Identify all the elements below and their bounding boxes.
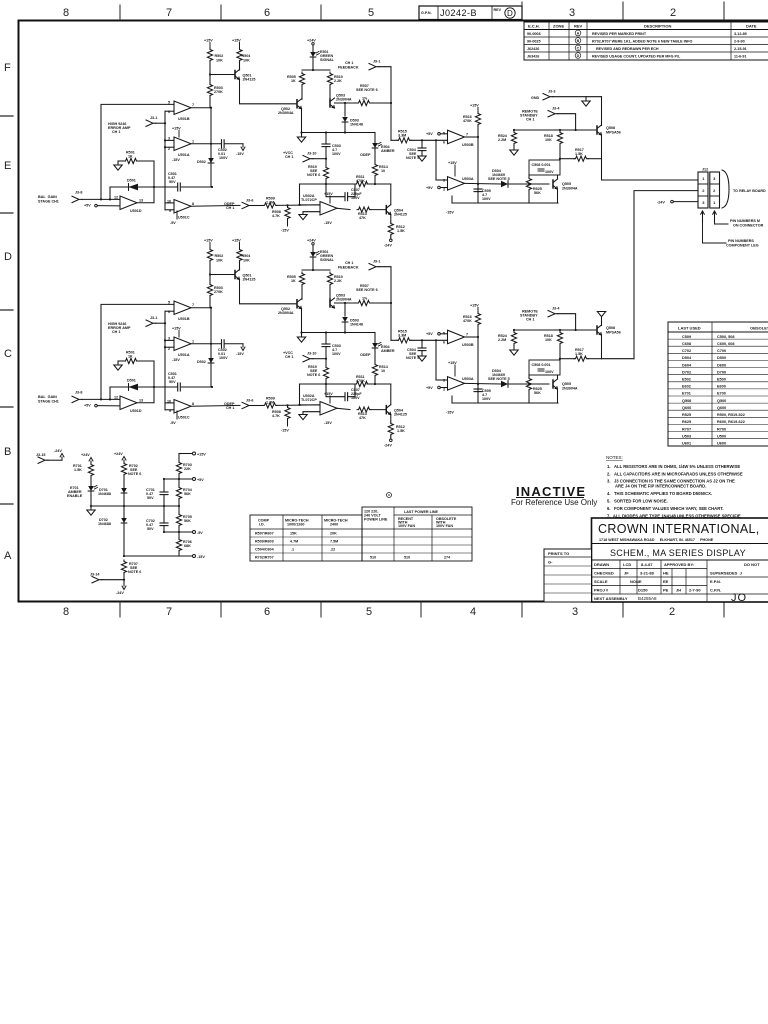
svg-text:6: 6 bbox=[264, 7, 270, 19]
wire channel2 R617 line to x634 bbox=[602, 358, 635, 360]
svg-text:-24V: -24V bbox=[657, 201, 665, 205]
svg-text:HE: HE bbox=[663, 571, 669, 576]
svg-text:R707: R707 bbox=[682, 427, 691, 431]
svg-text:2: 2 bbox=[702, 188, 705, 193]
svg-text:R600, R619-622: R600, R619-622 bbox=[717, 420, 745, 424]
channel 2 instance bbox=[38, 239, 621, 448]
svg-text:3: 3 bbox=[569, 7, 575, 19]
svg-text:NEXT ASSEMBLY: NEXT ASSEMBLY bbox=[594, 596, 628, 601]
channel 1 instance bbox=[38, 39, 621, 248]
svg-text:R700: R700 bbox=[717, 427, 726, 431]
svg-text:20K: 20K bbox=[330, 532, 337, 536]
wire Q508 emitter to J12 pin1 bbox=[602, 159, 699, 180]
svg-text:274: 274 bbox=[444, 556, 451, 560]
svg-text:D: D bbox=[4, 251, 12, 263]
svg-text:Q500: Q500 bbox=[717, 399, 726, 403]
svg-text:U601: U601 bbox=[682, 442, 691, 446]
svg-text:90-0025: 90-0025 bbox=[527, 40, 541, 44]
revision table bbox=[524, 22, 768, 60]
svg-text:2. ALL CAPACITORS ARE IN MIC: 2. ALL CAPACITORS ARE IN MICROFARADS UNL… bbox=[607, 472, 743, 477]
svg-text:B: B bbox=[577, 39, 580, 43]
svg-text:ZONE: ZONE bbox=[553, 24, 564, 29]
svg-text:4. THIS SCHEMATIC APPLIES TO: 4. THIS SCHEMATIC APPLIES TO BOARD D5050… bbox=[607, 491, 712, 496]
svg-text:D600: D600 bbox=[717, 363, 726, 367]
svg-text:D500: D500 bbox=[717, 356, 726, 360]
svg-text:7: 7 bbox=[166, 606, 172, 618]
svg-text:R500, R519-522: R500, R519-522 bbox=[717, 413, 745, 417]
svg-text:E.P.N.: E.P.N. bbox=[710, 579, 721, 584]
svg-text:C509: C509 bbox=[682, 335, 691, 339]
svg-text:56K: 56K bbox=[184, 519, 191, 523]
svg-text:E500: E500 bbox=[717, 378, 726, 382]
svg-text:LAST POWER LINE: LAST POWER LINE bbox=[404, 510, 439, 514]
svg-text:8: 8 bbox=[63, 7, 69, 19]
svg-text:3: 3 bbox=[572, 606, 578, 618]
svg-text:APPROVED BY:: APPROVED BY: bbox=[664, 562, 694, 567]
svg-text:J12: J12 bbox=[702, 168, 708, 172]
svg-text:+15V: +15V bbox=[197, 453, 206, 457]
svg-text:D604: D604 bbox=[682, 363, 692, 367]
svg-text:-15V: -15V bbox=[197, 555, 205, 559]
svg-text:ARE J4 ON THE FIP INTERCONNECT: ARE J4 ON THE FIP INTERCONNECT BOARD. bbox=[615, 484, 706, 489]
svg-text:1N4688: 1N4688 bbox=[98, 522, 111, 526]
svg-text:6: 6 bbox=[264, 606, 270, 618]
svg-text:E700: E700 bbox=[717, 392, 726, 396]
last used / obsolete table bbox=[668, 322, 768, 446]
svg-text:E602: E602 bbox=[682, 385, 691, 389]
title block bbox=[592, 518, 768, 604]
svg-text:R702,R707 WERE 1K1, ADDED NOTE: R702,R707 WERE 1K1, ADDED NOTE 6 NEW TAB… bbox=[592, 40, 693, 44]
svg-text:1.5K: 1.5K bbox=[74, 468, 82, 472]
svg-text:R525: R525 bbox=[682, 413, 691, 417]
svg-text:2: 2 bbox=[669, 606, 675, 618]
svg-text:E600: E600 bbox=[717, 385, 726, 389]
wire J12 pin2 from channel 2 bbox=[634, 191, 698, 359]
CH2 extras bbox=[597, 312, 605, 326]
resistor R704 56K bbox=[176, 486, 181, 500]
drawing border frame bbox=[19, 21, 768, 602]
horizontal bus bbox=[91, 505, 179, 507]
svg-text:LCD: LCD bbox=[623, 562, 631, 567]
svg-text:15K: 15K bbox=[290, 532, 297, 536]
svg-text:PE: PE bbox=[663, 588, 669, 593]
svg-text:G-: G- bbox=[548, 560, 553, 565]
svg-text:7. ALL DIODES ARE TYPE 1N4148: 7. ALL DIODES ARE TYPE 1N4148 UNLESS OTH… bbox=[607, 514, 741, 519]
svg-text:8-4-87: 8-4-87 bbox=[641, 562, 653, 567]
svg-text:100V FAN: 100V FAN bbox=[398, 524, 415, 528]
zone tick marks bottom edge bbox=[120, 602, 724, 617]
svg-text:C.P.N.: C.P.N. bbox=[710, 588, 721, 593]
svg-text:C504/C604: C504/C604 bbox=[255, 548, 275, 552]
svg-text:3-21-88: 3-21-88 bbox=[640, 571, 655, 576]
svg-text:REVISED AND REDRAWN PER ECH: REVISED AND REDRAWN PER ECH bbox=[596, 47, 659, 51]
svg-text:510: 510 bbox=[370, 556, 376, 560]
zone tick marks top edge bbox=[120, 2, 724, 20]
svg-text:INACTIVE: INACTIVE bbox=[516, 484, 586, 499]
svg-text:D700: D700 bbox=[717, 370, 726, 374]
svg-text:+24V: +24V bbox=[114, 452, 123, 456]
svg-text:J3-14: J3-14 bbox=[90, 573, 100, 577]
svg-text:1000/1260: 1000/1260 bbox=[287, 523, 304, 527]
svg-text:5: 5 bbox=[368, 7, 374, 19]
svg-text:7: 7 bbox=[166, 7, 172, 19]
svg-text:C600, 608: C600, 608 bbox=[717, 342, 735, 346]
svg-text:GND: GND bbox=[531, 96, 540, 100]
svg-text:5. SORTED FOR LOW NOISE.: 5. SORTED FOR LOW NOISE. bbox=[607, 499, 668, 504]
svg-text:+5V: +5V bbox=[197, 478, 204, 482]
svg-text:2-9-90: 2-9-90 bbox=[734, 40, 745, 44]
svg-text:E701: E701 bbox=[682, 392, 691, 396]
svg-text:A: A bbox=[4, 550, 12, 562]
-5V output tap bbox=[164, 531, 192, 533]
svg-text:8: 8 bbox=[63, 606, 69, 618]
+24V tap bbox=[61, 457, 63, 460]
diode D701 1N4688 bbox=[121, 488, 127, 493]
CH1 extras bbox=[531, 90, 766, 359]
svg-text:-5V: -5V bbox=[197, 531, 203, 535]
svg-text:.1: .1 bbox=[291, 548, 294, 552]
resistor R702 see note 6 bbox=[121, 462, 126, 476]
svg-text:D702: D702 bbox=[682, 370, 691, 374]
resistor R705 56K bbox=[176, 513, 181, 527]
supply +24V rail R701 bbox=[89, 458, 93, 462]
svg-text:D150: D150 bbox=[638, 588, 648, 593]
svg-text:U500: U500 bbox=[717, 434, 726, 438]
svg-text:E502: E502 bbox=[682, 378, 691, 382]
svg-text:C: C bbox=[577, 46, 580, 50]
svg-text:-24V: -24V bbox=[54, 449, 62, 453]
svg-text:J63426: J63426 bbox=[527, 55, 539, 59]
svg-text:90-0008: 90-0008 bbox=[527, 32, 541, 36]
svg-text:R509/R609: R509/R609 bbox=[255, 540, 274, 544]
+5V output tap bbox=[164, 478, 192, 480]
svg-text:C608: C608 bbox=[682, 342, 691, 346]
svg-text:3: 3 bbox=[702, 200, 705, 205]
drawing number box J0242-B bbox=[419, 6, 522, 20]
svg-text:1: 1 bbox=[702, 176, 705, 181]
svg-text:2: 2 bbox=[670, 7, 676, 19]
svg-text:I.D.: I.D. bbox=[259, 523, 265, 527]
svg-text:100V FAN: 100V FAN bbox=[436, 524, 453, 528]
svg-text:.22: .22 bbox=[330, 548, 335, 552]
resistor R706 68K bbox=[176, 538, 181, 552]
svg-text:7.5M: 7.5M bbox=[330, 540, 338, 544]
svg-text:U503: U503 bbox=[682, 434, 691, 438]
svg-text:G.P.N.: G.P.N. bbox=[421, 11, 432, 15]
svg-text:11-6-91: 11-6-91 bbox=[734, 55, 747, 59]
ground bbox=[585, 97, 587, 101]
svg-text:1N4688: 1N4688 bbox=[98, 492, 111, 496]
led E701 amber enable bbox=[88, 485, 97, 491]
svg-text:PIN NUMBERS: PIN NUMBERS bbox=[728, 239, 754, 243]
svg-text:ENABLE: ENABLE bbox=[67, 494, 83, 498]
svg-text:50V: 50V bbox=[147, 527, 154, 531]
svg-text:J0242-B: J0242-B bbox=[440, 8, 477, 18]
svg-text:1: 1 bbox=[713, 200, 716, 205]
svg-text:LAST USED: LAST USED bbox=[678, 326, 701, 331]
svg-text:REVISED PER MARKED PRINT: REVISED PER MARKED PRINT bbox=[592, 32, 647, 36]
capacitor C702 0.47 bbox=[163, 506, 165, 523]
svg-text:4.7M: 4.7M bbox=[290, 540, 298, 544]
pin numbering callout arrows bbox=[701, 211, 705, 222]
svg-text:EE: EE bbox=[663, 579, 669, 584]
svg-text:C500, 508: C500, 508 bbox=[717, 335, 735, 339]
wire bbox=[553, 96, 602, 98]
wire Q508 collector bbox=[601, 97, 603, 126]
resistor R701 1.5K bbox=[88, 463, 93, 477]
svg-text:PROJ #: PROJ # bbox=[594, 588, 609, 593]
svg-text:JH: JH bbox=[676, 588, 681, 593]
svg-text:2-7-90: 2-7-90 bbox=[689, 588, 701, 593]
svg-text:SCHEM., MA SERIES DISPLAY: SCHEM., MA SERIES DISPLAY bbox=[610, 548, 746, 558]
svg-text:3-12-89: 3-12-89 bbox=[734, 32, 747, 36]
svg-text:TO RELAY BOARD: TO RELAY BOARD bbox=[733, 189, 766, 193]
svg-text:C702: C702 bbox=[682, 349, 691, 353]
notes block bbox=[606, 455, 743, 519]
svg-text:6. FOR COMPONENT VALUES WHIC: 6. FOR COMPONENT VALUES WHICH VARY, SEE … bbox=[607, 506, 723, 511]
svg-text:PRINTS TO: PRINTS TO bbox=[548, 551, 569, 556]
svg-text:4: 4 bbox=[470, 606, 476, 618]
svg-text:NOTES:: NOTES: bbox=[606, 455, 623, 460]
svg-text:+24V: +24V bbox=[81, 453, 90, 457]
svg-text:JF: JF bbox=[624, 571, 629, 576]
svg-text:J62426: J62426 bbox=[527, 47, 539, 51]
svg-text:PIN NUMBERS M: PIN NUMBERS M bbox=[730, 219, 760, 223]
svg-text:1. ALL RESISTORS ARE IN OHMS: 1. ALL RESISTORS ARE IN OHMS, 1/4W 5% UN… bbox=[607, 464, 740, 469]
svg-text:For Reference Use Only: For Reference Use Only bbox=[511, 498, 597, 507]
svg-text:DESCRIPTION: DESCRIPTION bbox=[644, 24, 671, 29]
supply +24V rail R702 chain bbox=[122, 457, 126, 461]
svg-text:R507/R607: R507/R607 bbox=[255, 532, 274, 536]
svg-text:56K: 56K bbox=[184, 492, 191, 496]
svg-text:2400: 2400 bbox=[330, 523, 338, 527]
svg-text:REV: REV bbox=[494, 8, 502, 12]
svg-text:SUPERSEDES J: SUPERSEDES J bbox=[710, 571, 742, 576]
svg-text:J3-15: J3-15 bbox=[36, 453, 45, 457]
resistor R707 see note 6 bbox=[121, 560, 126, 574]
svg-text:Q600: Q600 bbox=[717, 406, 726, 410]
svg-text:D: D bbox=[507, 9, 513, 18]
svg-text:REV: REV bbox=[574, 24, 583, 29]
svg-text:C: C bbox=[4, 348, 12, 360]
component values chart bbox=[250, 493, 472, 562]
svg-text:CHECKED: CHECKED bbox=[594, 571, 614, 576]
svg-text:C700: C700 bbox=[717, 349, 726, 353]
svg-text:68K: 68K bbox=[184, 544, 191, 548]
ground above Q608 bbox=[601, 317, 603, 326]
svg-text:D504: D504 bbox=[682, 356, 692, 360]
svg-text:22K: 22K bbox=[184, 467, 191, 471]
svg-text:Q606: Q606 bbox=[682, 406, 691, 410]
svg-text:1718 WEST MISHAWAKA ROAD E: 1718 WEST MISHAWAKA ROAD ELKHART, IN. 46… bbox=[599, 538, 714, 542]
-15V output tap bbox=[124, 555, 192, 557]
svg-text:CROWN INTERNATIONAL,: CROWN INTERNATIONAL, bbox=[598, 522, 760, 536]
svg-text:DO NOT: DO NOT bbox=[744, 562, 760, 567]
svg-text:J3-3: J3-3 bbox=[548, 90, 555, 94]
-24V bottom tap bbox=[123, 581, 125, 586]
svg-text:R625: R625 bbox=[682, 420, 691, 424]
svg-text:50V: 50V bbox=[147, 496, 154, 500]
svg-text:U600: U600 bbox=[717, 442, 726, 446]
svg-text:Q508: Q508 bbox=[682, 399, 691, 403]
svg-text:NONE: NONE bbox=[630, 579, 642, 584]
svg-text:COMPONENT LEG: COMPONENT LEG bbox=[726, 244, 759, 248]
capacitor C701 0.47 bbox=[163, 479, 165, 492]
ground bbox=[87, 510, 95, 515]
svg-text:DRAWN: DRAWN bbox=[594, 562, 609, 567]
svg-text:R702/R707: R702/R707 bbox=[255, 556, 274, 560]
connector J3-14 bbox=[92, 577, 102, 583]
zone tick marks left page edge bbox=[0, 116, 13, 504]
svg-text:5: 5 bbox=[366, 606, 372, 618]
+15V output tap bbox=[179, 453, 192, 455]
svg-text:ON CONNECTOR: ON CONNECTOR bbox=[733, 224, 764, 228]
svg-text:OBSOLETE: OBSOLETE bbox=[750, 326, 768, 331]
svg-text:NOTE 6: NOTE 6 bbox=[128, 570, 141, 574]
svg-text:2: 2 bbox=[713, 188, 716, 193]
resistor chain right: R703 22K bbox=[178, 454, 180, 462]
svg-text:A: A bbox=[577, 31, 580, 35]
svg-text:DATE: DATE bbox=[746, 24, 757, 29]
svg-text:SCALE: SCALE bbox=[594, 579, 608, 584]
connector J3-15 bbox=[38, 457, 48, 463]
svg-text:-24V: -24V bbox=[116, 591, 124, 595]
INACTIVE stamp bbox=[511, 484, 597, 507]
svg-text:POWER LINE: POWER LINE bbox=[364, 518, 388, 522]
prints-to box bbox=[544, 549, 592, 602]
svg-text:REVISED USAGE COUNT, UPDATED P: REVISED USAGE COUNT, UPDATED PER MFG P/L bbox=[592, 55, 681, 59]
svg-text:NOTE 6: NOTE 6 bbox=[128, 472, 141, 476]
svg-text:B4255A8: B4255A8 bbox=[638, 596, 657, 601]
svg-text:2-15-91: 2-15-91 bbox=[734, 47, 747, 51]
svg-text:F: F bbox=[4, 62, 11, 74]
svg-text:E: E bbox=[4, 160, 11, 172]
svg-text:D: D bbox=[577, 54, 580, 58]
svg-text:510: 510 bbox=[404, 556, 410, 560]
svg-text:JO: JO bbox=[731, 592, 747, 604]
svg-text:E.C.H.: E.C.H. bbox=[528, 24, 540, 29]
svg-text:B: B bbox=[4, 446, 11, 458]
svg-text:3: 3 bbox=[713, 176, 716, 181]
diode D702 1N4688 bbox=[121, 518, 127, 523]
